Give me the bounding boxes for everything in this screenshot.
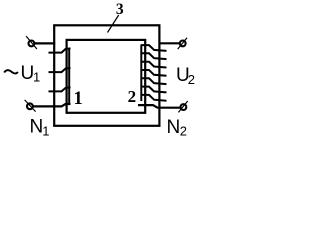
svg-text:2: 2 bbox=[128, 87, 137, 106]
svg-text:2: 2 bbox=[180, 124, 187, 139]
svg-text:N: N bbox=[167, 117, 181, 138]
svg-text:1: 1 bbox=[74, 89, 83, 109]
svg-text:2: 2 bbox=[188, 72, 195, 87]
svg-text:N: N bbox=[30, 117, 44, 138]
svg-text:1: 1 bbox=[33, 70, 40, 85]
svg-text:1: 1 bbox=[42, 124, 49, 139]
svg-text:3: 3 bbox=[116, 1, 124, 18]
